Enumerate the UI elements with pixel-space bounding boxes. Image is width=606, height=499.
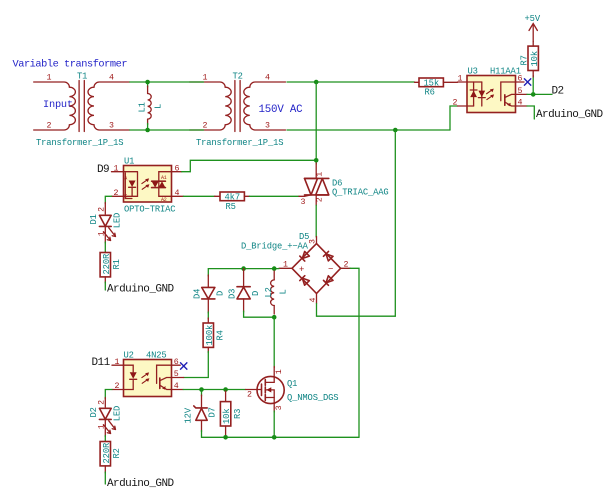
svg-text:Arduino_GND: Arduino_GND	[536, 109, 604, 121]
wire D1 to R1	[104, 242, 106, 253]
zener D7	[184, 390, 218, 432]
svg-text:+: +	[299, 265, 304, 275]
svg-text:Variable transformer: Variable transformer	[13, 59, 128, 71]
wire bridge pin4 to AC riser	[317, 304, 396, 317]
svg-text:220R: 220R	[102, 442, 112, 463]
triac D6	[299, 163, 389, 207]
svg-text:Transformer_1P_1S: Transformer_1P_1S	[36, 138, 123, 148]
opto U3 H11AA1	[453, 67, 528, 113]
wire U3 pin2 riser	[450, 106, 458, 130]
svg-text:1: 1	[458, 75, 463, 84]
svg-text:4: 4	[175, 189, 180, 198]
svg-text:5: 5	[174, 370, 179, 379]
wire U2 pin2 to D2	[105, 390, 112, 399]
svg-text:A2: A2	[161, 197, 167, 203]
svg-text:4: 4	[309, 298, 318, 303]
svg-text:1: 1	[97, 231, 106, 236]
svg-text:2: 2	[344, 260, 349, 269]
wire U1 pin6 to triac branch	[182, 160, 317, 171]
svg-text:D7: D7	[208, 407, 218, 417]
wire R4 to U2 pin5	[184, 352, 209, 378]
svg-text:Arduino_GND: Arduino_GND	[107, 284, 175, 296]
svg-text:1: 1	[47, 74, 52, 83]
svg-text:1: 1	[97, 424, 106, 429]
junction D3 top	[241, 266, 246, 271]
svg-text:Transformer_1P_1S: Transformer_1P_1S	[196, 138, 283, 148]
junction U3 pin5	[531, 92, 536, 97]
svg-text:H11AA1: H11AA1	[490, 67, 521, 77]
wire bottom rail T2 to U3 pin2 riser	[287, 129, 450, 131]
wire U3 pin5 to R7	[532, 76, 534, 95]
opto U1 OPTO-TRIAC	[112, 157, 184, 215]
svg-text:1: 1	[115, 358, 120, 367]
svg-text:6: 6	[175, 164, 180, 173]
svg-text:A: A	[124, 176, 127, 182]
wire triac branch vertical from top rail	[315, 82, 317, 164]
svg-text:D9: D9	[97, 164, 109, 176]
wire AC riser vertical	[394, 130, 396, 316]
svg-text:Q_TRIAC_AAG: Q_TRIAC_AAG	[332, 187, 389, 197]
svg-text:2: 2	[47, 122, 52, 131]
junction D7 top	[199, 387, 204, 392]
svg-text:A1: A1	[161, 175, 167, 181]
diode D3	[228, 269, 261, 312]
wire U1 pin2 to D1	[105, 196, 111, 203]
svg-text:1: 1	[203, 74, 208, 83]
junction R3 bottom	[223, 435, 228, 440]
svg-text:L: L	[154, 104, 164, 109]
svg-text:Q1: Q1	[287, 379, 297, 389]
wire D3 bottom to L2 bottom junction	[244, 311, 275, 317]
svg-text:U2: U2	[124, 351, 134, 361]
svg-text:D3: D3	[228, 289, 238, 299]
resistor R5	[215, 192, 250, 212]
wire bridge pin2 to bottom rail	[350, 268, 359, 437]
svg-text:D2: D2	[89, 407, 99, 417]
svg-text:3: 3	[109, 122, 114, 131]
wire R5 to triac gate	[250, 195, 300, 197]
svg-text:D_Bridge_+−AA: D_Bridge_+−AA	[241, 242, 309, 252]
svg-text:OPTO−TRIAC: OPTO−TRIAC	[124, 205, 175, 215]
svg-text:LED: LED	[112, 213, 122, 228]
svg-text:U1: U1	[124, 157, 134, 167]
transformer T2	[190, 72, 286, 149]
transistor Q1 NMOS	[246, 367, 339, 413]
svg-text:L1: L1	[138, 102, 148, 112]
svg-text:4k7: 4k7	[225, 192, 240, 202]
svg-text:2: 2	[97, 400, 106, 405]
svg-text:−: −	[328, 264, 333, 274]
svg-text:4: 4	[109, 74, 114, 83]
junction R3 top	[223, 387, 228, 392]
svg-text:Input: Input	[43, 99, 73, 111]
junction L2 bottom / Q1 drain	[272, 315, 277, 320]
wire + rail D4/D3/L2 to bridge pin1	[208, 269, 279, 276]
wire U1 pin4 to R5	[183, 195, 215, 197]
svg-text:D4: D4	[192, 289, 202, 299]
svg-text:K: K	[124, 194, 127, 200]
svg-text:D1: D1	[89, 214, 99, 224]
wire D7 to bottom rail	[202, 431, 360, 438]
svg-text:2: 2	[114, 189, 119, 198]
wire R1 to GND label	[104, 282, 106, 290]
svg-text:D11: D11	[92, 357, 111, 369]
no-connect U2 pin6	[180, 362, 187, 369]
svg-text:U3: U3	[468, 67, 478, 77]
svg-text:3: 3	[275, 405, 284, 410]
wire junction to Q1 drain	[273, 317, 275, 367]
svg-text:4N25: 4N25	[146, 351, 167, 361]
svg-text:R1: R1	[112, 259, 122, 269]
resistor R6	[415, 78, 458, 97]
wire Q1 source to bottom rail	[273, 411, 275, 437]
wire top rail T2 to R6	[287, 81, 415, 83]
wire R2 to GND label	[104, 472, 106, 484]
svg-text:D: D	[216, 291, 226, 296]
diode D2 LED	[89, 398, 122, 437]
diode D4	[192, 275, 225, 313]
svg-text:1: 1	[275, 369, 284, 374]
svg-text:R2: R2	[112, 448, 122, 458]
resistor R1	[100, 252, 122, 283]
transformer T1	[34, 72, 130, 149]
wire U3 pin5 to D2 label	[527, 93, 552, 95]
svg-text:6: 6	[518, 75, 523, 84]
junction top rail at triac branch	[314, 80, 319, 85]
wire U3 pin4 to Arduino_GND	[527, 106, 534, 119]
resistor R3	[220, 391, 242, 436]
wire D4 to R4	[207, 312, 209, 319]
resistor R2	[100, 442, 122, 474]
wire triac to bridge pin3	[315, 205, 317, 237]
resistor R7	[520, 42, 541, 78]
junction L1 top	[145, 80, 150, 85]
svg-text:2: 2	[247, 391, 252, 400]
svg-text:T1: T1	[77, 72, 87, 82]
svg-text:4: 4	[265, 74, 270, 83]
svg-text:R7: R7	[520, 55, 530, 65]
svg-text:D2: D2	[552, 86, 564, 98]
svg-text:Q_NMOS_DGS: Q_NMOS_DGS	[287, 393, 338, 403]
junction Q1 source at rail	[272, 435, 277, 440]
svg-text:2: 2	[97, 207, 106, 212]
no-connect U3 pin6	[524, 78, 531, 85]
diode D1 LED	[89, 203, 122, 244]
svg-text:2: 2	[316, 197, 325, 202]
inductor L2	[264, 271, 289, 314]
svg-text:D: D	[251, 291, 261, 296]
junction L1 bottom	[145, 128, 150, 133]
svg-text:R4: R4	[216, 330, 226, 340]
svg-text:10k: 10k	[222, 409, 232, 424]
svg-text:6: 6	[174, 358, 179, 367]
svg-text:3: 3	[309, 239, 318, 244]
svg-text:150V AC: 150V AC	[259, 104, 304, 116]
svg-text:3: 3	[265, 122, 270, 131]
svg-text:T2: T2	[233, 72, 243, 82]
svg-text:2: 2	[203, 122, 208, 131]
svg-text:R6: R6	[425, 87, 435, 97]
svg-text:10k: 10k	[530, 51, 540, 66]
svg-text:100k: 100k	[205, 325, 215, 346]
wire top rail T1 to T2	[130, 81, 204, 83]
svg-text:L: L	[279, 289, 289, 294]
svg-text:2: 2	[453, 99, 458, 108]
svg-text:LED: LED	[112, 406, 122, 421]
svg-text:5: 5	[518, 87, 523, 96]
svg-text:1: 1	[114, 164, 119, 173]
svg-text:R3: R3	[233, 409, 243, 419]
power +5V	[525, 14, 541, 42]
svg-text:12V: 12V	[184, 407, 194, 423]
junction L2 top	[272, 266, 277, 271]
svg-text:R5: R5	[226, 202, 236, 212]
svg-text:4: 4	[518, 99, 523, 108]
opto U2 4N25	[112, 351, 184, 397]
svg-text:3: 3	[301, 198, 306, 207]
svg-text:220R: 220R	[102, 253, 112, 274]
wire bottom rail T1 to T2	[130, 129, 204, 131]
svg-text:+5V: +5V	[525, 14, 541, 24]
svg-text:2: 2	[115, 382, 120, 391]
svg-text:4: 4	[174, 382, 179, 391]
svg-text:Arduino_GND: Arduino_GND	[107, 478, 175, 490]
inductor L1	[138, 82, 164, 130]
junction bottom rail at bridge AC riser	[393, 128, 398, 133]
resistor R4	[203, 318, 225, 353]
junction triac branch	[314, 158, 319, 163]
svg-text:1: 1	[316, 172, 325, 177]
bridge rectifier D5	[241, 232, 350, 304]
svg-text:L2: L2	[264, 287, 274, 297]
wire U2 pin4 to Q1 gate	[183, 389, 245, 391]
wire D2 to R2	[104, 436, 106, 443]
svg-text:1: 1	[283, 260, 288, 269]
